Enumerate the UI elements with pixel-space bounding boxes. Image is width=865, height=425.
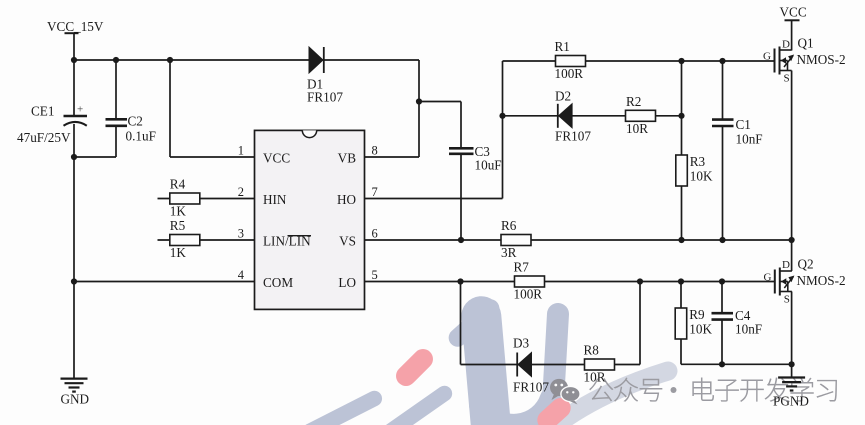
junction: VS at C1 (719, 237, 725, 243)
junction: LO at D3 branch (457, 278, 463, 284)
resistor R4 1K (158, 177, 255, 219)
svg-text:GND: GND (61, 392, 90, 407)
svg-text:HIN: HIN (263, 192, 287, 207)
resistor R1 100R (555, 39, 586, 81)
diode D2 FR107 (555, 89, 591, 144)
wire: D3/R8 snubber branch (461, 282, 641, 365)
svg-text:HO: HO (337, 192, 356, 207)
junction: VS at Q1 source (789, 237, 795, 243)
wire: D1 output drop to VB (418, 60, 420, 157)
wire: CE1/C2 down to GND (73, 157, 75, 378)
svg-text:1: 1 (238, 143, 244, 157)
junction: CE1/C2 bottom (71, 154, 77, 160)
svg-text:VCC: VCC (263, 150, 290, 165)
svg-text:R9: R9 (689, 307, 705, 322)
svg-text:COM: COM (263, 275, 293, 290)
wire: VB to C3 top link (419, 102, 461, 149)
resistor R9 10K (675, 282, 712, 365)
svg-text:10nF: 10nF (735, 322, 762, 337)
svg-text:D: D (782, 259, 790, 271)
svg-text:100R: 100R (514, 287, 543, 302)
svg-text:S: S (784, 73, 790, 85)
svg-text:FR107: FR107 (555, 129, 591, 144)
junction: VB net to C3 (416, 98, 422, 104)
svg-text:C1: C1 (736, 117, 751, 132)
svg-text:FR107: FR107 (513, 380, 549, 395)
svg-text:R6: R6 (501, 218, 517, 233)
svg-text:S: S (784, 294, 790, 306)
svg-text:10K: 10K (689, 322, 712, 337)
junction: PGND line at C4 (719, 361, 725, 367)
capacitor C3 10uF (449, 144, 502, 240)
power flag VCC_15V (47, 19, 104, 60)
svg-text:LO: LO (338, 275, 356, 290)
junction: LO at R9 (678, 278, 684, 284)
ground PGND (773, 378, 809, 409)
wire: power ground line (681, 363, 792, 365)
svg-text:8: 8 (372, 143, 378, 157)
pin numbers 8-5 (372, 143, 378, 281)
svg-text:1K: 1K (170, 204, 187, 219)
junction: gate rail at C1 (719, 58, 725, 64)
svg-text:4: 4 (238, 268, 245, 282)
diode D1 FR107 (307, 47, 343, 105)
svg-text:R8: R8 (584, 343, 600, 358)
svg-text:1K: 1K (170, 245, 187, 260)
svg-text:2: 2 (238, 185, 244, 199)
svg-text:FR107: FR107 (307, 90, 343, 105)
resistor R8 10R (584, 343, 615, 385)
junction: COM to GND (71, 278, 77, 284)
svg-text:CE1: CE1 (31, 104, 54, 119)
resistor R5 1K (158, 218, 255, 260)
capacitor C2 0.1uF (74, 60, 156, 157)
resistor R3 10K (676, 61, 713, 240)
op-amp/driver IC U1 (255, 130, 365, 309)
svg-text:G: G (764, 272, 772, 284)
svg-text:NMOS-2: NMOS-2 (797, 273, 846, 288)
svg-text:10nF: 10nF (736, 132, 763, 147)
svg-text:R3: R3 (690, 154, 706, 169)
svg-text:D: D (782, 39, 790, 51)
svg-text:Q2: Q2 (798, 257, 814, 272)
svg-text:10K: 10K (690, 169, 713, 184)
diode D3 FR107 (513, 336, 549, 395)
ground GND (61, 379, 90, 407)
svg-text:D3: D3 (513, 336, 530, 351)
svg-text:R2: R2 (626, 94, 641, 109)
svg-text:C2: C2 (128, 114, 143, 129)
svg-text:100R: 100R (555, 66, 584, 81)
junction: LO at C4 (719, 278, 725, 284)
wire: D2/R2 branch (503, 115, 682, 117)
svg-text:+: + (77, 104, 83, 116)
svg-text:PGND: PGND (773, 394, 809, 409)
wire: top VCC rail (74, 59, 419, 61)
svg-text:G: G (763, 51, 771, 63)
svg-text:10R: 10R (626, 121, 648, 136)
svg-text:VCC: VCC (780, 5, 807, 20)
junction: R2 to R3 (678, 113, 684, 119)
resistor R2 10R (626, 94, 656, 136)
power flag VCC (top right) (780, 5, 807, 51)
wire: VS pin 6 net (365, 239, 792, 241)
svg-text:3: 3 (238, 226, 244, 240)
svg-text:0.1uF: 0.1uF (126, 129, 156, 144)
svg-text:R1: R1 (555, 39, 570, 54)
svg-text:R5: R5 (170, 218, 186, 233)
wire: HO pin 7 to gate rail riser (365, 61, 503, 199)
junction: gate rail at R3 (678, 58, 684, 64)
svg-text:VCC_15V: VCC_15V (47, 19, 104, 34)
svg-text:7: 7 (372, 185, 378, 199)
svg-text:3R: 3R (501, 245, 517, 260)
wire: Q2 source to PGND (791, 292, 793, 378)
wire: VB pin 8 (365, 156, 420, 158)
junction: PGND at Q2 source (789, 361, 795, 367)
svg-text:47uF/25V: 47uF/25V (17, 130, 71, 145)
wire: COM pin 4 (74, 281, 255, 283)
svg-text:NMOS-2: NMOS-2 (797, 52, 846, 67)
junction: VCC_15V rail at C2 (113, 57, 119, 63)
capacitor C4 10nF (712, 282, 763, 365)
svg-text:VB: VB (338, 150, 357, 165)
wire: rail to VCC pin 1 (170, 60, 255, 157)
svg-text:10R: 10R (584, 370, 606, 385)
junction: VCC_15V rail at pin1 riser (167, 57, 173, 63)
junction: VS at R3 (678, 237, 684, 243)
junction: VCC_15V rail at CE1 (71, 57, 77, 63)
wire: LO pin 5 net (365, 281, 775, 283)
svg-text:D2: D2 (555, 89, 571, 104)
pin numbers 1-4 (238, 143, 245, 281)
svg-text:10uF: 10uF (475, 158, 502, 173)
svg-text:6: 6 (372, 226, 378, 240)
transistor Q2 NMOS-2 (764, 257, 846, 306)
svg-text:VS: VS (339, 233, 356, 248)
junction: HO riser to D2 branch (499, 113, 505, 119)
svg-text:R7: R7 (514, 260, 530, 275)
resistor R7 100R (514, 260, 545, 302)
resistor R6 3R (501, 218, 531, 260)
transistor Q1 NMOS-2 (763, 36, 846, 85)
junction: VS at C3 (458, 237, 464, 243)
svg-text:5: 5 (372, 268, 378, 282)
junction: LO at R8 riser (637, 278, 643, 284)
capacitor CE1 47uF/25V (17, 60, 87, 157)
svg-text:Q1: Q1 (798, 36, 814, 51)
svg-text:R4: R4 (170, 177, 186, 192)
capacitor C1 10nF (712, 61, 763, 240)
wire: Q1 source to VS / Q2 drain (791, 71, 793, 272)
wire: right gate rail (503, 60, 775, 62)
